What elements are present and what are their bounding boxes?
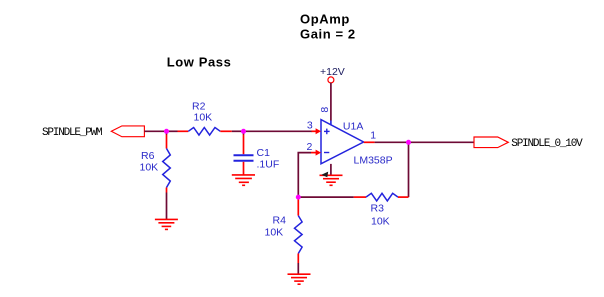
svg-text:1: 1 xyxy=(370,129,376,141)
cursor arrow artifact xyxy=(321,172,328,178)
svg-text:OpAmp: OpAmp xyxy=(300,11,350,26)
wire pin 2 to node C xyxy=(298,153,311,198)
wire port to node A xyxy=(144,130,166,132)
svg-text:.1UF: .1UF xyxy=(257,159,280,171)
svg-text:10K: 10K xyxy=(265,227,284,239)
wire node C to R3 xyxy=(298,196,353,198)
svg-text:SPINDLE_PWM: SPINDLE_PWM xyxy=(42,127,102,139)
node D junction (output) xyxy=(406,140,411,145)
svg-text:Low Pass: Low Pass xyxy=(167,54,232,69)
svg-text:U1A: U1A xyxy=(343,121,363,133)
svg-text:R4: R4 xyxy=(273,215,287,227)
svg-text:2: 2 xyxy=(307,141,313,153)
ground (below R6) xyxy=(155,219,178,229)
resistor R4 xyxy=(295,197,303,263)
svg-text:R6: R6 xyxy=(141,150,155,162)
wire node A to R2 xyxy=(167,130,178,132)
port SPINDLE_PWM xyxy=(111,126,144,137)
svg-text:R2: R2 xyxy=(192,100,206,112)
wire node B to op-amp pin 3 xyxy=(244,130,313,132)
svg-text:8: 8 xyxy=(319,107,331,113)
minus marking xyxy=(324,152,329,154)
wire +12V to op-amp pin 8 xyxy=(330,83,332,121)
pin 2 lead with arrow xyxy=(311,152,317,154)
ground (below C1) xyxy=(232,175,255,185)
wire R4 to ground xyxy=(297,263,299,274)
svg-text:LM358P: LM358P xyxy=(354,155,393,167)
svg-text:SPINDLE_0_10V: SPINDLE_0_10V xyxy=(511,138,583,150)
node C junction xyxy=(296,195,301,200)
svg-text:C1: C1 xyxy=(257,147,271,159)
resistor R2 xyxy=(178,128,232,136)
capacitor C1 xyxy=(234,135,254,175)
wire node D down to R3 xyxy=(408,142,410,197)
pin 3 lead with arrow xyxy=(312,130,318,132)
svg-text:10K: 10K xyxy=(194,112,213,124)
plus marking xyxy=(324,129,330,135)
svg-text:10K: 10K xyxy=(140,162,159,174)
node A junction xyxy=(164,129,169,134)
ground (below R4) xyxy=(288,274,311,284)
resistor R3 xyxy=(354,193,409,201)
ground (below op-amp) xyxy=(320,175,343,185)
op-amp U1A xyxy=(321,120,364,164)
wire R6 to ground xyxy=(166,193,168,220)
pin 8 stub xyxy=(330,121,332,126)
power symbol +12V xyxy=(328,77,334,83)
resistor R6 xyxy=(163,135,171,193)
node B junction xyxy=(241,129,246,134)
wire node B down to C1 xyxy=(243,131,245,134)
svg-text:+12V: +12V xyxy=(320,66,345,78)
pin 1 lead xyxy=(364,141,375,143)
port SPINDLE_0_10V xyxy=(474,137,508,148)
svg-text:Gain = 2: Gain = 2 xyxy=(300,26,356,41)
svg-text:R3: R3 xyxy=(371,203,385,215)
wire node A down to R6 xyxy=(166,131,168,134)
wire R2 to node B xyxy=(232,130,244,132)
wire pin 1 to output port xyxy=(375,141,474,143)
svg-text:3: 3 xyxy=(307,120,313,132)
pin 4 stub to ground xyxy=(330,164,332,175)
svg-text:10K: 10K xyxy=(371,215,390,227)
